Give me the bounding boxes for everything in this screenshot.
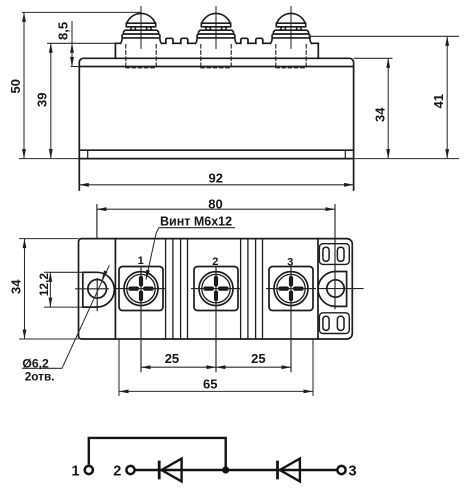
pad terminal 1	[119, 267, 163, 311]
svg-text:3: 3	[349, 463, 357, 479]
arrow leader screw	[144, 270, 150, 280]
arrows 34 side	[386, 58, 390, 68]
arrow leader hole	[100, 270, 107, 280]
arrows 41	[445, 36, 449, 46]
dim line 65	[119, 390, 313, 392]
svg-text:80: 80	[208, 196, 222, 211]
crosshair terminal 3	[266, 266, 316, 373]
underline hole note	[22, 367, 62, 369]
ext line terminal plane	[47, 42, 115, 44]
svg-text:25: 25	[251, 351, 265, 366]
svg-text:2: 2	[113, 463, 121, 479]
pad terminal 2	[194, 267, 238, 311]
dim line 41	[446, 36, 448, 158]
screw 3 flat washer	[273, 30, 308, 34]
top surface segments with bumps	[115, 42, 318, 44]
svg-text:65: 65	[203, 377, 217, 392]
arrows 8.5	[70, 43, 74, 53]
screw head terminal 3	[274, 272, 308, 306]
hidden bushing terminal 2	[201, 45, 231, 68]
screw head terminal 1	[124, 272, 158, 306]
hidden bushing terminal 1	[126, 45, 156, 68]
module body outline	[79, 58, 353, 190]
svg-text:92: 92	[209, 171, 223, 186]
slot frame top right	[319, 244, 349, 265]
terminal 1	[85, 466, 93, 474]
keyhole slot left	[83, 272, 114, 307]
dim line 80	[97, 208, 335, 210]
dimensions plan view	[19, 209, 335, 396]
vent slots bottom	[323, 316, 329, 330]
plate bottom seam	[79, 66, 353, 68]
raised strip left edge	[114, 43, 116, 58]
svg-text:8,5: 8,5	[56, 22, 71, 40]
screw 3 lock washer tabs	[281, 27, 285, 30]
screw 1 head flange	[126, 23, 155, 27]
screw head terminal 2	[199, 272, 233, 306]
svg-text:34: 34	[8, 279, 23, 294]
arrows 34 plan	[23, 239, 27, 249]
cross terminal 3	[280, 278, 301, 299]
arrows 12.2	[49, 272, 53, 282]
svg-text:1: 1	[72, 463, 80, 479]
centerline terminal 2	[215, 7, 217, 49]
baseplate seam line	[79, 149, 353, 151]
ext line plate top right	[354, 57, 393, 59]
arrows 92	[79, 183, 89, 187]
svg-text:2отв.: 2отв.	[25, 369, 55, 383]
mounting hole left	[88, 280, 107, 299]
terminal 2 screw	[195, 13, 236, 43]
leader screw	[146, 228, 159, 280]
dim line 92	[79, 184, 353, 186]
section divider right	[317, 239, 319, 339]
ext line bottom left	[19, 158, 79, 160]
crosshair hole left	[75, 278, 109, 312]
arrows 65	[119, 390, 129, 394]
cross terminal 2	[205, 278, 226, 299]
terminal 3 clamp pedestal	[270, 34, 311, 43]
dim line 34 plan	[24, 239, 26, 339]
ext line hole left up	[96, 204, 98, 239]
terminal 1 clamp pedestal	[120, 34, 161, 43]
svg-text:Ø6,2: Ø6,2	[22, 356, 49, 370]
screw 1 head dome	[127, 13, 155, 23]
screw 2 head flange	[201, 23, 230, 27]
arrows 80	[97, 207, 107, 211]
terminal 2	[126, 466, 134, 474]
diode VD1 triangle	[162, 459, 182, 482]
screw 2 lock washer tabs	[206, 27, 210, 30]
section divider left	[114, 239, 116, 339]
bump 4	[256, 38, 263, 43]
diode VD2 cathode bar	[276, 461, 279, 480]
screw 1 lock washer tabs	[131, 27, 135, 30]
centerline terminal 1	[140, 7, 142, 49]
slot frame bottom right	[319, 313, 349, 334]
dim line 50	[23, 12, 25, 158]
leader hole	[62, 265, 109, 368]
diode VD1 cathode bar	[158, 461, 161, 480]
wire terminal 1 to junction	[89, 438, 226, 470]
arrows 39	[49, 43, 53, 53]
svg-text:39: 39	[35, 93, 50, 107]
wire terminal 2 to diode VD1	[136, 469, 160, 471]
bump 2	[181, 38, 188, 43]
svg-text:50: 50	[8, 79, 23, 93]
pad terminal 3	[269, 267, 313, 311]
baseplate step tick right	[344, 150, 346, 158]
ext line plate bottom left	[71, 66, 80, 68]
arrows 50	[22, 12, 26, 22]
screw 3 head dome	[277, 13, 305, 23]
node junction	[222, 466, 229, 473]
screw 1 flat washer	[123, 30, 158, 34]
ext lines 12.2	[44, 272, 83, 307]
module bottom edge	[79, 158, 353, 160]
dim line 8.5	[71, 21, 73, 67]
ext line washer top right	[309, 35, 460, 37]
bump 3	[241, 38, 248, 43]
raised strip right edge	[317, 43, 319, 58]
dimensions of side view	[19, 12, 459, 184]
wire VD1 to junction	[160, 469, 277, 471]
dim line 12.2	[49, 272, 51, 307]
svg-text:34: 34	[373, 107, 388, 122]
cross terminal 1	[130, 278, 151, 299]
svg-text:3: 3	[287, 257, 293, 269]
baseplate step tick left	[87, 150, 89, 158]
vent slots top	[323, 247, 329, 261]
svg-text:Винт М6х12: Винт М6х12	[160, 214, 232, 228]
screw 3 head flange	[276, 23, 305, 27]
terminal screw assemblies, side view	[120, 7, 311, 68]
terminal 2 clamp pedestal	[195, 34, 236, 43]
rib lines gap 1	[166, 239, 188, 339]
svg-text:25: 25	[165, 351, 179, 366]
arrows 25	[141, 365, 151, 369]
hidden bushing terminal 3	[276, 45, 306, 68]
mounting hole right	[327, 280, 344, 297]
dim line 39	[50, 43, 52, 158]
dim line 25 right	[216, 366, 291, 368]
center lines plan view	[75, 204, 364, 372]
screw 2 head dome	[202, 13, 230, 23]
terminal 3	[337, 466, 345, 474]
svg-text:2: 2	[212, 256, 218, 268]
module outline plan	[79, 239, 353, 339]
centerline terminal 3	[290, 7, 292, 49]
ext lines 65	[119, 339, 313, 396]
svg-text:41: 41	[431, 94, 446, 108]
underline vint	[159, 227, 235, 229]
svg-text:12,2: 12,2	[37, 273, 51, 297]
ext line bottom right	[354, 158, 459, 160]
dim line 34 side	[387, 58, 389, 158]
diode VD2 triangle	[280, 459, 300, 482]
dim line 25 left	[141, 366, 216, 368]
ext line screw top	[22, 11, 141, 13]
wire VD2 to terminal 3	[278, 469, 337, 471]
svg-text:1: 1	[138, 255, 144, 267]
crosshair hole right	[319, 204, 364, 309]
screw cross slots	[130, 278, 301, 299]
ext lines 34 plan	[19, 239, 79, 339]
bump 1	[166, 38, 173, 43]
rib lines gap 2	[241, 239, 263, 339]
terminal 1 screw	[120, 13, 161, 43]
crosshair terminal 1	[116, 266, 166, 373]
terminal 3 screw	[270, 13, 311, 43]
keyhole slot right	[318, 272, 347, 307]
crosshair terminal 2	[191, 266, 241, 373]
screw 2 flat washer	[198, 30, 233, 34]
